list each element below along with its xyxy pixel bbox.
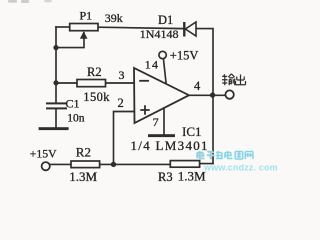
potentiometer P1 body <box>70 24 98 31</box>
watermark 电子电路图网 row (pink shadow) <box>198 152 215 160</box>
svg-text:C1: C1 <box>66 96 80 110</box>
wire: top rail left segment to P1 <box>56 26 70 28</box>
wire: bottom rail <box>50 163 213 166</box>
svg-text:+15V: +15V <box>170 48 199 62</box>
capacitor C1 plates <box>46 102 67 109</box>
svg-text:IC1: IC1 <box>182 124 202 139</box>
svg-text:10n: 10n <box>67 112 85 124</box>
junction node bottom rail / pin2 <box>111 162 116 167</box>
wire: diode to corner and drop to output node <box>197 29 214 164</box>
svg-text:1/4 LM3401: 1/4 LM3401 <box>131 138 209 153</box>
op-amp U1 triangle <box>134 68 189 123</box>
svg-text:39k: 39k <box>105 11 123 25</box>
svg-text:1.3M: 1.3M <box>69 169 97 184</box>
node label 输出 (output) <box>222 74 246 86</box>
junction node at P1 left/wiper <box>53 45 58 50</box>
wire: op-amp pin 2 to bottom rail <box>114 112 135 165</box>
scan artifact: cut-off text fragments top-left <box>8 0 52 3</box>
watermark 电子电路图网 row <box>197 151 253 159</box>
resistor R2 1.3M body (bottom left) <box>71 161 100 168</box>
svg-text:R2: R2 <box>87 65 102 79</box>
output terminal <box>225 90 233 98</box>
resistor R2 150k body <box>77 80 106 87</box>
svg-text:1.3M: 1.3M <box>178 168 206 183</box>
junction node at output <box>210 92 215 97</box>
resistor R3 1.3M body (bottom right) <box>170 161 199 168</box>
ground under C1 <box>39 127 69 130</box>
wire: pin 14 to +15V terminal <box>163 59 166 83</box>
wire: left vertical rail <box>55 27 57 103</box>
junction node at R2/C1 rail <box>53 80 58 85</box>
diode D1 <box>184 22 196 37</box>
svg-text:3: 3 <box>119 68 125 82</box>
ground at op-amp pin 7 <box>148 134 175 137</box>
svg-text:D1: D1 <box>158 13 173 27</box>
wire: pin 7 to ground <box>163 108 165 134</box>
wire: P1 to diode D1 <box>98 27 184 28</box>
svg-text:+15V: +15V <box>30 147 57 160</box>
svg-text:4: 4 <box>194 79 201 93</box>
op-amp plus input symbol <box>140 105 149 114</box>
wire: C1 bottom plate to ground <box>55 109 57 127</box>
svg-text:150k: 150k <box>83 90 110 104</box>
+15V terminal (pin 14) <box>159 51 166 58</box>
svg-text:2: 2 <box>118 96 124 110</box>
svg-text:R2: R2 <box>76 145 91 160</box>
+15V terminal (bottom left) <box>42 162 50 170</box>
wire: op-amp output pin 4 <box>189 94 225 96</box>
svg-text:1N4148: 1N4148 <box>140 27 179 41</box>
wire: rail to R2 150k to op-amp pin 3 <box>56 82 134 84</box>
wire: P1 wiper to left rail <box>56 33 84 48</box>
svg-text:www.cndzz. com: www.cndzz. com <box>203 163 278 173</box>
svg-text:7: 7 <box>153 115 159 129</box>
svg-text:R3: R3 <box>158 170 173 184</box>
svg-text:P1: P1 <box>80 9 93 23</box>
potentiometer P1 wiper arrow <box>80 31 88 39</box>
svg-text:14: 14 <box>145 57 159 71</box>
op-amp minus input symbol <box>139 80 149 82</box>
